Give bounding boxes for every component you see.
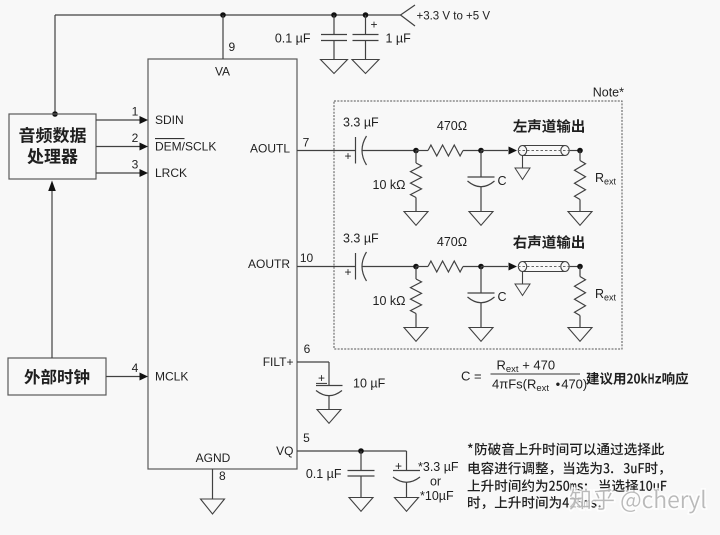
ground (Rext left) <box>568 212 592 226</box>
ground (C right) <box>469 328 493 342</box>
note: recommended 20kHz response <box>586 372 688 385</box>
pin 8 wire (AGND) <box>212 469 214 499</box>
wire: pin 3 (LRCK) <box>96 172 140 174</box>
arrowhead into pin 4 <box>140 373 149 381</box>
resistor Rext (left) <box>579 151 581 161</box>
wire: external clock to audio processor <box>51 190 53 358</box>
svg-text:10 kΩ: 10 kΩ <box>373 178 406 192</box>
wire: AOUTL pin 7 to coupling cap <box>297 150 355 152</box>
wire: node to output jack (right) <box>481 266 508 268</box>
IC U1 (DAC) body <box>148 59 297 469</box>
svg-text:10: 10 <box>300 251 314 265</box>
node: junction rail/VA <box>220 12 226 18</box>
svg-text:DEM/SCLK: DEM/SCLK <box>155 140 216 154</box>
svg-text:*3.3 µF: *3.3 µF <box>418 460 459 474</box>
svg-text:470Ω: 470Ω <box>437 119 467 133</box>
wire: pin 4 (MCLK) <box>106 376 140 378</box>
wire: +V supply rail <box>55 14 401 16</box>
node junction at Rext (left) <box>577 148 583 154</box>
svg-text:AOUTL: AOUTL <box>250 142 290 156</box>
svg-text:1 µF: 1 µF <box>386 32 412 46</box>
ground (C left) <box>469 212 493 226</box>
wire: jack to Rext (right) <box>570 266 580 268</box>
capacitor 3.3uF coupling (right) <box>355 253 357 280</box>
output jack / cable (left) <box>518 146 526 156</box>
wire: pin 1 (SDIN) <box>96 119 140 121</box>
svg-text:+: + <box>370 18 377 32</box>
note paragraph line 1 <box>468 443 664 456</box>
pin 9 wire (VA) <box>222 15 224 59</box>
capacitor 10uF (FILT+, polarized) <box>316 385 343 387</box>
arrowhead into pin 3 <box>140 169 149 177</box>
wire: cap to node A (right) <box>363 266 417 268</box>
svg-text:3.3 µF: 3.3 µF <box>343 116 379 130</box>
note paragraph line 2 <box>469 462 663 475</box>
node junction at Rext (right) <box>577 264 583 270</box>
capacitor 3.3uF coupling (left) <box>355 137 357 164</box>
node: junction at audio processor box <box>52 111 58 117</box>
svg-text:+: + <box>395 459 402 473</box>
svg-text:C =: C = <box>461 369 482 384</box>
note paragraph line 3 <box>468 479 667 492</box>
resistor 10 kohm (right) <box>415 267 417 280</box>
arrowhead up into audio processor <box>48 181 56 192</box>
wire: pin 2 (DEM/SCLK) <box>96 146 140 148</box>
svg-text:3.3 µF: 3.3 µF <box>343 232 379 246</box>
resistor 10 kohm (left) <box>415 151 417 164</box>
svg-text:+: + <box>344 149 351 163</box>
svg-text:or: or <box>430 475 441 489</box>
wire: AOUTR pin 10 to coupling cap <box>297 266 355 268</box>
label channel output (right) <box>513 235 584 249</box>
svg-text:8: 8 <box>219 469 226 483</box>
ground (1uF) <box>352 60 379 74</box>
arrowhead to jack (right) <box>509 263 518 271</box>
ground (AGND) <box>201 499 225 514</box>
svg-text:VQ: VQ <box>276 444 293 458</box>
svg-text:2: 2 <box>132 131 139 145</box>
capacitor C (left) <box>480 151 482 178</box>
svg-text:10 kΩ: 10 kΩ <box>373 294 406 308</box>
svg-text:+3.3 V to +5 V: +3.3 V to +5 V <box>417 11 491 23</box>
watermark 知乎 @cheryl <box>570 489 706 514</box>
svg-text:FILT+: FILT+ <box>263 355 294 369</box>
svg-text:AOUTR: AOUTR <box>248 257 290 271</box>
ground (Rext right) <box>568 328 592 342</box>
wire: node to output jack (left) <box>481 150 508 152</box>
svg-text:3: 3 <box>132 158 139 172</box>
svg-text:10 µF: 10 µF <box>353 376 386 390</box>
capacitor C (right) <box>480 267 482 294</box>
wire: pin 6 FILT+ <box>297 361 329 363</box>
node junction at 10k (right) <box>413 264 419 270</box>
ground (VQ 0.1uF) <box>349 498 373 512</box>
svg-text:4: 4 <box>132 361 139 375</box>
svg-text:MCLK: MCLK <box>155 370 188 384</box>
ground (jack shield right) <box>522 272 524 285</box>
svg-text:9: 9 <box>229 40 236 54</box>
svg-text:AGND: AGND <box>196 451 231 465</box>
resistor Rext (right) <box>579 267 581 277</box>
arrowhead to jack (left) <box>509 147 518 155</box>
svg-text:C: C <box>498 290 507 304</box>
node junction at C (left) <box>478 148 484 154</box>
svg-text:7: 7 <box>303 136 310 150</box>
node junction VQ <box>358 448 364 454</box>
note paragraph line 4 <box>468 496 601 509</box>
wire: cap to node A (left) <box>363 150 417 152</box>
svg-text:Rext + 470: Rext + 470 <box>497 358 556 376</box>
ground (jack shield left) <box>522 156 524 169</box>
output jack / cable (right) <box>518 262 526 272</box>
svg-text:VA: VA <box>215 65 230 79</box>
node: junction rail/C-0.1uF <box>331 12 337 18</box>
capacitor 0.1uF (VA decoupling) <box>333 15 335 35</box>
svg-text:0.1 µF: 0.1 µF <box>275 32 311 46</box>
capacitor 0.1uF (VQ) <box>360 451 362 471</box>
svg-text:5: 5 <box>303 431 310 445</box>
svg-text:6: 6 <box>304 342 311 356</box>
wire: pin 5 VQ <box>297 450 407 452</box>
svg-text:LRCK: LRCK <box>155 166 187 180</box>
node junction at 10k (left) <box>413 148 419 154</box>
capacitor 3.3uF/10uF (VQ rise-time, polarized) <box>406 451 408 471</box>
svg-text:*10µF: *10µF <box>420 489 454 503</box>
svg-text:0.1 µF: 0.1 µF <box>306 467 342 481</box>
svg-text:C: C <box>498 174 507 188</box>
block: external clock (外部时钟) <box>8 358 106 395</box>
svg-text:470Ω: 470Ω <box>437 235 467 249</box>
note boundary (dashed) <box>334 101 622 349</box>
svg-text:Note*: Note* <box>593 86 624 100</box>
arrowhead into pin 2 <box>140 143 149 151</box>
resistor 470 ohm (right) <box>416 266 428 268</box>
ground (10uF) <box>317 410 341 424</box>
ground (VQ polarized cap) <box>395 498 419 512</box>
ground (10k right) <box>404 328 428 342</box>
ground (10k left) <box>404 212 428 226</box>
wire: rail to audio processor box <box>54 15 56 114</box>
ground (0.1uF) <box>321 60 348 74</box>
wire: jack to Rext (left) <box>570 150 580 152</box>
resistor 470 ohm (left) <box>416 150 428 152</box>
block: audio data processor (音频数据处理器) <box>9 114 96 179</box>
svg-text:SDIN: SDIN <box>155 113 184 127</box>
node: junction rail/C-1uF <box>363 12 369 18</box>
svg-text:+: + <box>344 265 351 279</box>
svg-text:1: 1 <box>132 105 139 119</box>
arrowhead into pin 1 <box>140 116 149 124</box>
power source +3.3 V to +5 V <box>401 5 416 26</box>
capacitor 1uF (VA decoupling, polarized) <box>365 15 367 35</box>
node junction at C (right) <box>478 264 484 270</box>
label channel output (left) <box>513 119 584 133</box>
